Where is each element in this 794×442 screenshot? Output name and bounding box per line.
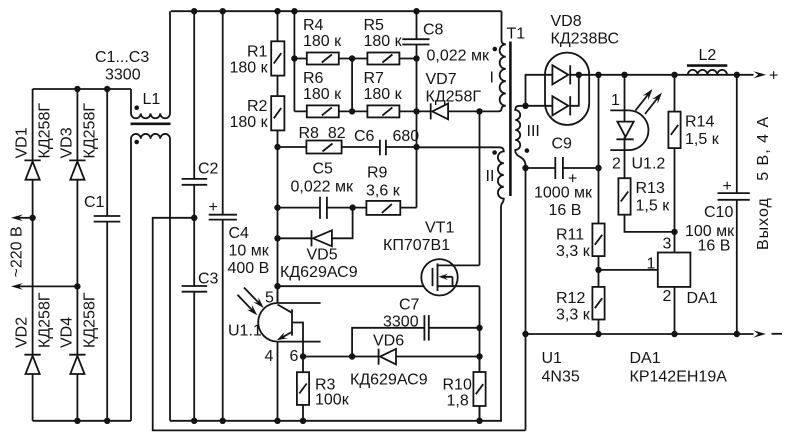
resistor R9: [366, 201, 400, 215]
svg-text:U1.2: U1.2: [632, 156, 666, 173]
inductor L1 core: [131, 123, 171, 126]
svg-text:R11: R11: [556, 227, 584, 244]
svg-text:~220 В: ~220 В: [9, 226, 26, 277]
svg-text:DA1: DA1: [687, 290, 718, 307]
capacitor C7: [424, 315, 428, 341]
svg-text:VD1: VD1: [14, 127, 31, 158]
resistor R13: [618, 178, 630, 215]
svg-text:180 к: 180 к: [230, 60, 269, 77]
wire: VD5 row: [278, 208, 353, 239]
inductor L2: [687, 66, 727, 75]
L1 phase dot upper: [134, 105, 139, 110]
svg-text:R12: R12: [556, 290, 585, 307]
svg-text:1: 1: [647, 256, 656, 273]
wire: VD8 anode feed: [522, 75, 579, 109]
svg-text:VD7: VD7: [426, 71, 457, 88]
svg-text:III: III: [527, 123, 540, 140]
T1 winding III phase dot: [525, 148, 530, 153]
svg-text:R4: R4: [303, 17, 324, 34]
svg-text:180 к: 180 к: [230, 114, 269, 131]
transistor VT1 MOSFET: [421, 259, 479, 295]
svg-text:400 В: 400 В: [228, 260, 270, 277]
svg-text:+: +: [723, 178, 732, 195]
wire: bridge bottom rail: [33, 418, 131, 424]
diode VD2: [24, 355, 40, 374]
svg-text:R1: R1: [247, 44, 268, 61]
capacitor C1: [94, 89, 121, 421]
svg-text:16 В: 16 В: [549, 202, 582, 219]
junction C1 top rail: [104, 86, 110, 92]
svg-text:1,5 к: 1,5 к: [685, 131, 720, 148]
svg-text:VD3: VD3: [58, 127, 75, 158]
svg-text:R6: R6: [303, 70, 324, 87]
U1.1 collector wire: [277, 286, 279, 303]
svg-text:VD2: VD2: [14, 317, 31, 348]
svg-text:II: II: [486, 168, 495, 185]
svg-text:180 к: 180 к: [364, 86, 403, 103]
wire: DA1 pin1: [599, 269, 658, 271]
inductor L1 lower winding: [131, 134, 170, 421]
svg-text:180 к: 180 к: [364, 33, 403, 50]
svg-text:+: +: [209, 199, 218, 216]
svg-text:C2: C2: [198, 161, 219, 178]
wire: R13 to DA1 ref: [625, 215, 678, 235]
resistor R5: [367, 53, 399, 65]
capacitor C3: [182, 218, 208, 421]
svg-text:R2: R2: [247, 98, 268, 115]
optocoupler phototransistor U1.1: [258, 303, 320, 357]
wire: VD6 row: [300, 353, 480, 359]
svg-text:КД258Г: КД258Г: [37, 292, 54, 348]
capacitor C8: [402, 11, 429, 58]
svg-text:3,3 к: 3,3 к: [556, 307, 591, 324]
wire: minus rail: [522, 330, 766, 337]
svg-text:3,3 к: 3,3 к: [556, 243, 591, 260]
svg-text:КД258Г: КД258Г: [81, 292, 98, 348]
svg-text:R14: R14: [685, 114, 714, 131]
wire: R4-R5 row: [291, 55, 420, 61]
wire: C9 row: [522, 165, 601, 171]
junction divider tap: [595, 267, 601, 273]
diode VD3: [69, 160, 85, 179]
svg-text:1,8: 1,8: [447, 393, 469, 410]
U1.2 light arrows: [636, 89, 663, 114]
svg-text:VD6: VD6: [373, 333, 404, 350]
wire: primary minus rail A: [170, 418, 502, 424]
wire: VD3-VD4 column: [76, 89, 78, 421]
svg-text:R8 82: R8 82: [299, 125, 346, 142]
svg-text:+: +: [769, 68, 778, 85]
diode VD8 lower half: [552, 96, 570, 115]
wire: VD8 lower branch: [526, 75, 579, 106]
svg-text:3300: 3300: [105, 67, 141, 84]
diode VD8 upper half: [552, 65, 570, 84]
resistor R2: [271, 96, 284, 130]
wire: R8-C6 row: [278, 146, 417, 148]
svg-text:U1.1: U1.1: [228, 323, 262, 340]
wire: source column: [476, 286, 482, 421]
diode VD4: [69, 355, 85, 374]
optocoupler LED U1.2: [610, 75, 648, 178]
junction VD3 top rail: [74, 86, 80, 92]
svg-text:0,022 мк: 0,022 мк: [427, 48, 490, 65]
U1.1 light arrows: [238, 288, 264, 316]
wire: R6-R7-VD7 row: [294, 108, 482, 114]
wire: R1-R2 column: [277, 11, 279, 303]
U1.1 emitter wire: [277, 342, 279, 421]
capacitor C4 polarized: [209, 11, 237, 421]
T1 winding I phase dot: [493, 47, 498, 52]
svg-text:C5: C5: [313, 161, 334, 178]
svg-text:VD5: VD5: [307, 247, 338, 264]
capacitor C10 polarized: [718, 75, 750, 334]
svg-text:180 к: 180 к: [303, 86, 342, 103]
svg-text:2: 2: [663, 288, 672, 305]
svg-text:4N35: 4N35: [542, 369, 580, 386]
svg-text:3300: 3300: [383, 314, 419, 331]
label minus output: [772, 333, 783, 335]
svg-text:4: 4: [265, 348, 274, 365]
svg-text:2: 2: [612, 156, 621, 173]
svg-text:0,022 мк: 0,022 мк: [291, 179, 354, 196]
svg-text:КД258Г: КД258Г: [81, 103, 98, 159]
wire: DA1 pin3: [674, 232, 676, 253]
resistor R6: [307, 105, 339, 117]
svg-text:16 В: 16 В: [698, 238, 731, 255]
svg-text:3,6 к: 3,6 к: [366, 183, 401, 200]
svg-text:I: I: [490, 70, 494, 87]
svg-text:C1: C1: [84, 194, 105, 211]
wire: R11-R12 column: [598, 75, 600, 334]
wire: R4R5-R6R7 link: [351, 59, 353, 112]
wire: C7 row: [352, 328, 479, 357]
wire: C5-R9 row: [278, 204, 417, 210]
inductor L1 upper winding: [131, 11, 170, 118]
svg-text:C6: C6: [354, 128, 375, 145]
wire: AC input lower: [11, 283, 81, 290]
svg-text:C7: C7: [399, 297, 420, 314]
resistor R8: [306, 141, 341, 154]
wire: AC input upper: [11, 214, 36, 221]
svg-text:C3: C3: [198, 271, 219, 288]
resistor R4: [307, 53, 339, 65]
junction R8 row left: [274, 144, 280, 150]
junction gate branch: [274, 283, 280, 289]
svg-text:L1: L1: [143, 91, 161, 108]
T1 winding II phase dot: [492, 150, 497, 155]
capacitor C2: [182, 11, 208, 218]
resistor R11: [592, 224, 604, 257]
resistor R7: [367, 105, 399, 117]
svg-text:1000 мк: 1000 мк: [534, 185, 593, 202]
svg-text:U1: U1: [542, 350, 563, 367]
svg-text:5: 5: [265, 290, 274, 307]
capacitor C5: [320, 197, 327, 219]
wire: DA1 pin2: [674, 287, 676, 334]
svg-text:6: 6: [290, 348, 299, 365]
svg-text:КД629АС9: КД629АС9: [280, 264, 358, 281]
resistor R1: [271, 41, 284, 75]
diode VD7: [431, 103, 448, 119]
svg-text:R5: R5: [364, 17, 385, 34]
svg-text:1: 1: [611, 92, 620, 109]
svg-text:C9: C9: [552, 136, 573, 153]
T1 winding III secondary: [515, 106, 525, 431]
svg-text:100к: 100к: [315, 392, 350, 409]
svg-text:VT1: VT1: [425, 220, 454, 237]
svg-text:КП707В1: КП707В1: [383, 237, 450, 254]
wire: C8 column to rows: [416, 59, 418, 208]
svg-text:R7: R7: [364, 70, 385, 87]
IC DA1 TL431 box: [658, 253, 691, 287]
capacitor C6: [380, 140, 386, 156]
resistor R12: [592, 287, 604, 320]
svg-text:L2: L2: [699, 47, 717, 64]
L1 phase dot lower: [134, 140, 139, 145]
svg-text:КД258Г: КД258Г: [37, 103, 54, 159]
diode VD1: [24, 160, 40, 179]
svg-text:680: 680: [393, 128, 420, 145]
svg-text:R10: R10: [443, 377, 472, 394]
T1 winding I primary: [480, 11, 506, 111]
resistor R10: [473, 357, 485, 421]
svg-text:1,5 к: 1,5 к: [636, 198, 671, 215]
junction C5 row left: [274, 204, 280, 210]
wire: R4R6 column: [293, 11, 295, 111]
wire: drain column: [479, 111, 481, 265]
svg-text:C4: C4: [229, 225, 250, 242]
svg-text:C8: C8: [423, 22, 444, 39]
wire: bridge top rail: [33, 86, 131, 92]
svg-text:КД258Г: КД258Г: [426, 89, 482, 106]
resistor R3: [297, 357, 309, 421]
transformer T1 core: [509, 42, 512, 197]
wire: plus rail: [576, 71, 766, 78]
resistor R14: [668, 75, 680, 232]
capacitor C9 polarized: [555, 157, 563, 179]
svg-text:3: 3: [663, 236, 672, 253]
svg-text:C10: C10: [704, 204, 733, 221]
svg-text:Выход 5 В, 4 А: Выход 5 В, 4 А: [755, 116, 772, 250]
svg-text:180 к: 180 к: [303, 33, 342, 50]
wire: mid-node rail B: [153, 215, 526, 431]
diode VD8 common package: [545, 53, 589, 125]
diode VD5: [312, 230, 332, 246]
svg-text:10 мк: 10 мк: [229, 243, 270, 260]
T1 winding II feedback: [417, 147, 504, 421]
junction C6 right: [413, 144, 419, 150]
svg-text:КД629АС9: КД629АС9: [350, 372, 428, 389]
diode VD6: [379, 349, 396, 365]
svg-text:DA1: DA1: [630, 350, 661, 367]
svg-text:R9: R9: [367, 165, 388, 182]
svg-text:VD4: VD4: [58, 317, 75, 348]
svg-text:T1: T1: [507, 26, 526, 43]
svg-text:VD8: VD8: [551, 13, 582, 30]
wire: top bus: [171, 8, 502, 14]
svg-text:C1...C3: C1...C3: [95, 49, 149, 66]
svg-text:КД238ВС: КД238ВС: [551, 31, 620, 48]
svg-text:R13: R13: [636, 180, 665, 197]
junction VD5 row left: [274, 235, 280, 241]
wire: VD1-VD2 column: [32, 89, 34, 421]
wire: gate row: [278, 285, 433, 287]
svg-text:КР142ЕН19А: КР142ЕН19А: [630, 369, 728, 386]
